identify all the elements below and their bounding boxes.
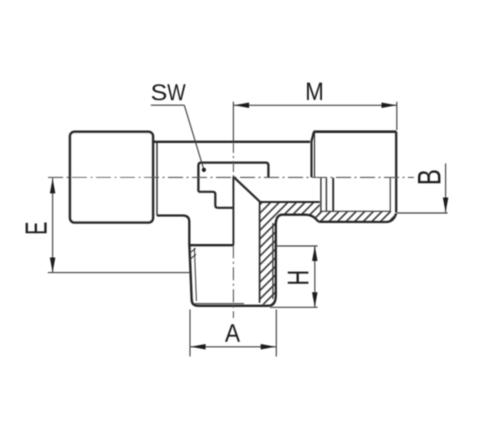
dimension B extension line <box>397 212 448 214</box>
hex flat SW outline (top) <box>198 163 268 192</box>
dimension M extension line right <box>396 102 398 130</box>
dimension A line <box>191 346 276 348</box>
right nut end face <box>395 132 397 213</box>
dimension E arrowhead bottom <box>50 258 56 273</box>
dimension A extension line right <box>275 310 277 357</box>
dimension H extension line top <box>277 245 318 247</box>
arm bottom edge w/ fillets <box>276 215 319 226</box>
label A <box>225 324 240 342</box>
label H <box>288 272 309 284</box>
dimension H arrowhead top <box>312 246 318 261</box>
port bottom face <box>192 300 269 306</box>
right nut left inner line <box>314 133 316 178</box>
dimension E arrowhead top <box>50 178 56 193</box>
vertical centerline (lower dash-dot) <box>232 245 234 318</box>
right nut top-left chamfer <box>312 132 314 142</box>
dimension H line <box>314 246 316 307</box>
dimension M line <box>234 104 396 106</box>
bore chamfer diagonal <box>234 177 261 202</box>
port left root line <box>194 248 196 301</box>
dimension M arrowhead left <box>234 103 249 109</box>
thread runout diagonal 2 <box>190 254 196 259</box>
hex flat SW outline (lower steps) <box>198 192 233 208</box>
dimension A arrowhead right <box>261 344 276 350</box>
nut end inner chamfer line <box>389 178 391 211</box>
SW leader underline <box>151 104 185 106</box>
SW leader line <box>184 105 204 169</box>
dimension M arrowhead right <box>382 103 397 109</box>
port right crest/outer edge <box>268 221 276 306</box>
hatch: under right nut band <box>311 211 396 222</box>
tube bottom edge + fillet into shank <box>157 216 189 246</box>
female thread line 2 <box>325 178 327 211</box>
thread top line <box>188 244 233 246</box>
label B <box>418 170 440 183</box>
dimension A arrowhead left <box>191 344 206 350</box>
dimension E extension line <box>48 272 190 274</box>
bottom chamfer line <box>195 303 244 305</box>
label M <box>307 83 322 100</box>
hatch: central arm band <box>260 202 320 221</box>
arm bore wall line <box>260 201 320 203</box>
hatch: bottom port right wall <box>260 202 276 305</box>
label SW <box>152 84 186 100</box>
left port nut body <box>70 132 153 223</box>
label E <box>26 223 47 234</box>
under-nut hatch top line <box>320 210 391 212</box>
port left crest edge <box>189 245 191 300</box>
dimension B arrowhead <box>443 198 449 213</box>
port bore wall (right, vertical) <box>259 202 261 303</box>
dimension B line <box>445 163 447 212</box>
dimension M extension line left <box>232 102 234 141</box>
left nut/body junction line <box>156 142 158 215</box>
SW leader dot <box>202 168 206 172</box>
section edge (solid centerline segment) <box>232 177 234 246</box>
horizontal centerline <box>48 176 414 178</box>
dimension A extension line left <box>189 310 191 357</box>
female thread line 1 <box>320 178 322 211</box>
right nut top edge <box>314 130 397 133</box>
tube top edge <box>154 141 310 143</box>
vertical centerline (upper dash-dot) <box>232 142 234 177</box>
right nut left face <box>310 141 312 178</box>
port right root line <box>272 223 274 299</box>
dimension H extension line bottom <box>270 306 318 308</box>
thread runout diagonal 1 <box>190 248 196 253</box>
female thread line 3 <box>332 178 334 211</box>
dimension H arrowhead bottom <box>312 292 318 307</box>
under-nut bottom edge <box>319 213 396 222</box>
dimension E line <box>52 178 54 272</box>
